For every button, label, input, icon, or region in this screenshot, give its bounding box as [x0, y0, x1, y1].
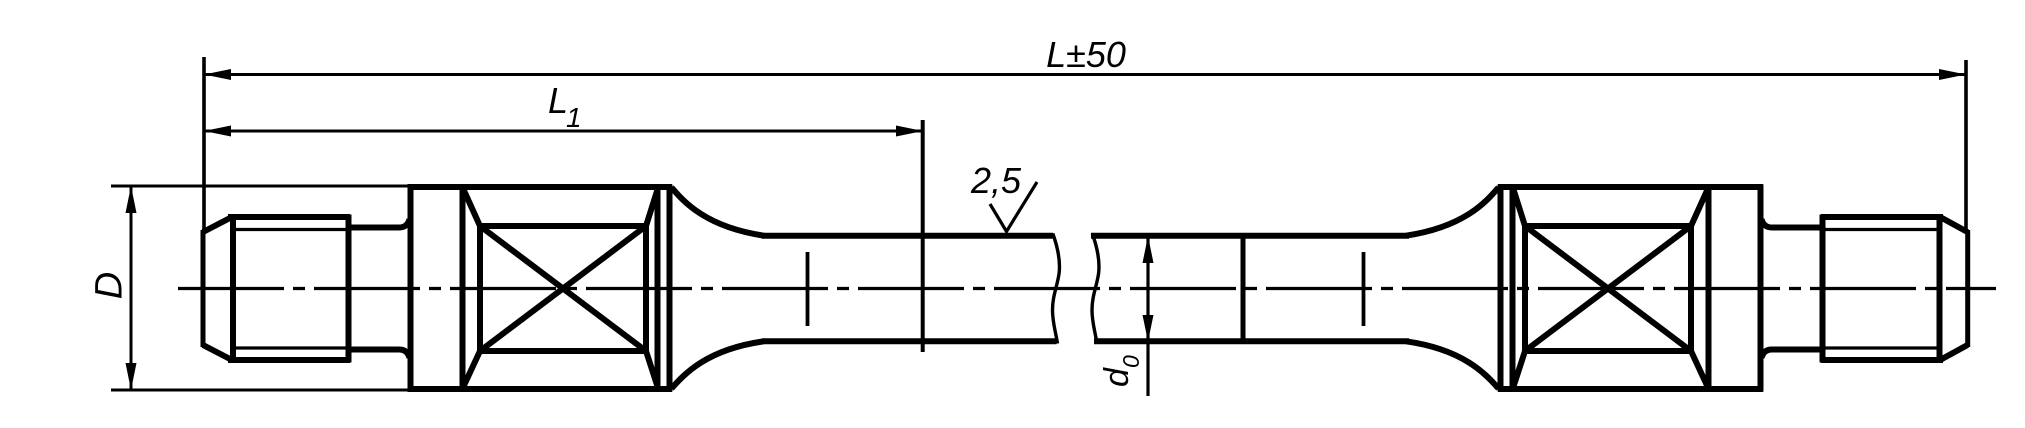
left X diagonal 1: [480, 226, 646, 351]
svg-text:1: 1: [566, 102, 582, 133]
right head top outline: [1498, 184, 1763, 190]
dimension L extension line left: [202, 57, 206, 232]
right corner chamfer BR: [1691, 351, 1708, 387]
rod top line left: [762, 233, 1053, 239]
left inner square left edge: [477, 224, 483, 354]
left thread major bottom: [228, 357, 350, 363]
right bell top: [1406, 188, 1499, 236]
arrow L1 right: [896, 126, 923, 137]
left tip face: [201, 230, 206, 347]
right tip chamfer top: [1941, 218, 1968, 233]
left tip chamfer top: [203, 218, 231, 233]
right inner square top: [1523, 223, 1694, 229]
rod bottom line left: [762, 338, 1057, 344]
left tip chamfer bottom: [203, 345, 231, 360]
dimension line d0: [1146, 237, 1149, 396]
svg-text:L±50: L±50: [1046, 34, 1126, 75]
rod bottom line right: [1094, 338, 1409, 344]
left thread end line: [346, 215, 352, 363]
arrow L1 left: [204, 126, 231, 137]
right bell bottom: [1406, 341, 1499, 388]
left neck bottom: [349, 350, 410, 359]
left corner chamfer TR: [646, 190, 658, 227]
arrow d0 top: [1143, 236, 1154, 263]
right X diagonal 1: [1525, 226, 1691, 351]
right neck bottom: [1762, 350, 1823, 359]
rod mark right: [1362, 252, 1366, 326]
rod mark left: [806, 252, 810, 326]
right corner chamfer TR: [1691, 190, 1708, 227]
left head edge line: [667, 185, 673, 392]
dimension line L±50: [204, 73, 1966, 76]
break line 2: [1092, 234, 1099, 344]
right corner chamfer BL: [1514, 351, 1526, 387]
left corner chamfer BR: [646, 351, 658, 387]
right thread start line: [1820, 215, 1826, 363]
left X diagonal 2: [480, 226, 646, 351]
left head bottom outline: [408, 386, 673, 392]
svg-text:D: D: [89, 272, 131, 299]
left thread major top: [228, 214, 350, 220]
left flange left edge: [408, 185, 414, 392]
rod top line right: [1091, 233, 1409, 239]
left inner square right edge: [643, 224, 649, 354]
right head edge line: [1498, 185, 1504, 392]
left thread minor top: [233, 228, 347, 231]
right thread major top: [1821, 214, 1943, 220]
left neck top: [349, 219, 410, 228]
arrow L left: [204, 69, 231, 80]
dimension D extension line top: [111, 185, 462, 188]
right thread minor bottom: [1824, 346, 1939, 349]
right tip chamfer bottom: [1941, 345, 1968, 360]
right neck top: [1762, 219, 1823, 228]
left inner square top: [478, 223, 649, 229]
right inner square bottom: [1523, 348, 1694, 354]
arrow D top: [126, 186, 137, 213]
break line 1: [1053, 234, 1060, 344]
right corner chamfer TL: [1514, 190, 1526, 227]
left bell bottom: [672, 341, 765, 388]
right inner square right edge: [1688, 224, 1694, 354]
left corner chamfer BL: [464, 351, 481, 387]
arrow D bottom: [126, 363, 137, 390]
right head bottom outline: [1498, 386, 1763, 392]
left flange right edge: [460, 185, 466, 392]
dimension D extension line bottom: [111, 389, 462, 392]
roughness symbol: [990, 182, 1037, 232]
rod boundary right: [1241, 233, 1246, 341]
dimension line D: [130, 187, 133, 389]
svg-text:0: 0: [1118, 355, 1144, 368]
svg-text:d: d: [1098, 367, 1136, 387]
left bell top: [672, 188, 765, 236]
right inner square left edge: [1522, 224, 1528, 354]
right flange left edge: [1706, 185, 1712, 392]
dimension L extension line right: [1964, 60, 1968, 233]
left thread minor bottom: [233, 346, 347, 349]
arrow d0 bottom: [1143, 315, 1154, 342]
left head top outline: [408, 184, 673, 190]
right flange right edge: [1758, 185, 1764, 392]
right head face line: [1510, 185, 1516, 392]
right thread major bottom: [1821, 357, 1943, 363]
svg-text:2,5: 2,5: [970, 160, 1022, 201]
right thread end line: [1937, 215, 1943, 363]
right thread minor top: [1824, 228, 1939, 231]
rod boundary / L1 extension line: [921, 120, 925, 352]
dimension line L1: [204, 130, 923, 133]
left inner square bottom: [478, 348, 649, 354]
left corner chamfer TL: [464, 190, 481, 227]
right tip face: [1965, 230, 1970, 347]
arrow L right: [1939, 69, 1966, 80]
label d0: [1098, 355, 1144, 387]
right X diagonal 2: [1525, 226, 1691, 351]
left thread start line: [230, 215, 236, 363]
left head face line: [655, 185, 661, 392]
centerline: [178, 287, 1996, 290]
